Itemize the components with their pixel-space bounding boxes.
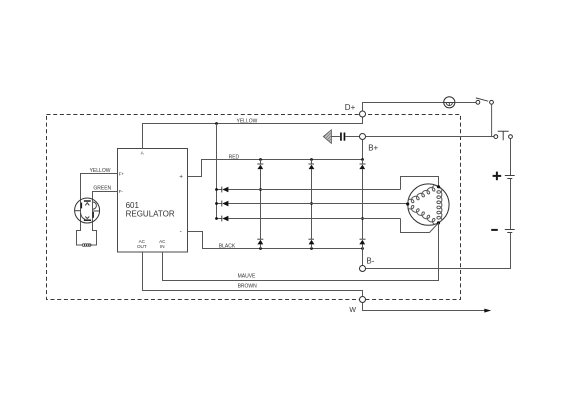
connector pin bar top xyxy=(84,200,91,202)
switch S1b contact right xyxy=(509,135,513,139)
node stator left xyxy=(406,202,409,205)
diode D3 (positive, arrow) xyxy=(359,165,365,170)
svg-text:BROWN: BROWN xyxy=(238,284,258,290)
switch S1b contact left xyxy=(494,135,498,139)
diode D7 (trio, arrow) xyxy=(222,187,228,193)
diode D8 (trio, cathode bar) xyxy=(221,201,223,207)
junction RED rail phase 1 xyxy=(259,158,262,161)
junction trio bus y=203.6 xyxy=(215,202,218,205)
wire phase row y=217.9 xyxy=(228,218,400,220)
regulator pin label AC OUT xyxy=(137,239,147,249)
wire B+ terminal down to positive rail xyxy=(362,140,364,160)
svg-text:RED: RED xyxy=(229,154,240,160)
wire trio diode cathode bus (vertical) xyxy=(216,124,218,219)
junction BLACK rail phase 3 xyxy=(361,247,364,250)
wire phase 3 staircase to stator bottom node xyxy=(401,219,439,233)
regulator U1 value label 601 REGULATOR xyxy=(126,201,175,219)
wire capacitor C1 to B+ terminal xyxy=(346,136,360,138)
wire trio bus stub to diode D9 xyxy=(217,218,222,220)
diode D1 (positive, cathode bar) xyxy=(257,163,263,165)
connector pin bar bottom xyxy=(84,219,91,221)
junction BLACK rail phase 2 xyxy=(310,247,313,250)
wire phase row y=188.8 xyxy=(228,189,400,191)
junction phase row on column x=362.2 xyxy=(361,217,364,220)
switch S1a contact right xyxy=(490,100,494,104)
diode D2 (positive, cathode bar) xyxy=(309,163,315,165)
svg-text:W: W xyxy=(349,307,356,314)
diode D3 (positive, cathode bar) xyxy=(360,163,366,165)
wire phase row y=203.6 xyxy=(228,203,407,205)
wire YELLOW from regulator A pin to D+ terminal xyxy=(143,117,363,149)
arrowhead on W output wire xyxy=(484,309,491,313)
connector tick right xyxy=(93,210,99,212)
svg-text:-: - xyxy=(180,228,182,235)
stator frame circle xyxy=(408,184,449,225)
junction phase row on column x=311 xyxy=(310,202,313,205)
junction trio bus y=188.8 xyxy=(215,188,218,191)
svg-text:GREEN: GREEN xyxy=(93,185,111,191)
wire BLACK rail to B- terminal xyxy=(362,249,364,266)
svg-text:601: 601 xyxy=(126,201,140,210)
brush connector plug circle xyxy=(75,198,100,223)
node stator top xyxy=(437,185,440,188)
wire B+ terminal to ignition switch S1b xyxy=(366,136,495,138)
wire BROWN AC OUT to W terminal xyxy=(143,252,363,297)
diode D1 (positive, arrow) xyxy=(257,165,263,170)
terminal D+ circle xyxy=(360,111,366,117)
wire regulator + pin to RED rail xyxy=(188,160,363,177)
connector jaw left lower xyxy=(81,213,86,219)
wire phase 1 staircase to stator top node xyxy=(401,177,439,190)
svg-text:F+: F+ xyxy=(119,172,125,177)
junction on yellow wire at trio diode feed xyxy=(215,122,218,125)
wire YELLOW regulator F+ to brush connector xyxy=(77,174,118,246)
connector socket bump right upper xyxy=(93,202,97,209)
wire switch S1b to battery positive xyxy=(510,139,512,176)
wire trio bus stub to diode D8 xyxy=(217,203,222,205)
junction RED rail phase 2 xyxy=(310,158,313,161)
battery BT1 + polarity mark xyxy=(493,172,502,181)
wire regulator - pin to BLACK rail xyxy=(188,232,363,249)
svg-text:D+: D+ xyxy=(345,103,356,112)
stator winding coil lower-left (phase 2-3) xyxy=(408,204,439,224)
junction RED rail phase 3 xyxy=(361,158,364,161)
battery BT1 cell 2 plates xyxy=(505,230,515,233)
capacitor C1 plates xyxy=(340,133,345,141)
svg-text:IN: IN xyxy=(160,244,165,249)
warning lamp L1 xyxy=(444,97,455,108)
wire battery inter-cell xyxy=(510,179,512,230)
diode D8 (trio, arrow) xyxy=(222,201,228,207)
svg-text:B-: B- xyxy=(366,256,374,265)
rectifier column phase wire at x=260.3 top xyxy=(260,160,262,249)
wire MAUVE stator bottom node to AC IN xyxy=(163,223,439,281)
diode D7 (trio, cathode bar) xyxy=(221,187,223,193)
connector socket bar left upper xyxy=(80,203,82,209)
regulator U1 body (601 REGULATOR) xyxy=(118,149,188,253)
svg-text:YELLOW: YELLOW xyxy=(90,168,111,174)
battery BT1 cell 1 plates xyxy=(505,176,515,179)
alternator case dashed boundary xyxy=(47,115,461,300)
switch S1a lever xyxy=(476,98,488,101)
svg-text:B+: B+ xyxy=(368,144,378,153)
wire switch S1a to B+ feed junction xyxy=(492,104,494,136)
wire trio bus stub to diode D7 xyxy=(217,189,222,191)
svg-text:OUT: OUT xyxy=(137,244,147,249)
rotor field coil winding xyxy=(82,244,91,247)
diode D4 (negative, arrow) xyxy=(257,240,263,245)
junction phase row on column x=260.3 xyxy=(259,188,262,191)
connector pin arrow down xyxy=(85,217,89,219)
diode D9 (trio, arrow) xyxy=(222,216,228,222)
diode D5 (negative, arrow) xyxy=(309,240,315,245)
wire ground to capacitor C1 xyxy=(331,136,340,138)
connector pin arrow up xyxy=(85,203,89,206)
wire lamp to ignition switch S1a xyxy=(455,102,476,104)
switch S1a contact left xyxy=(476,100,480,104)
wire battery negative to B- terminal xyxy=(366,233,511,269)
svg-text:+: + xyxy=(179,173,183,180)
terminal B- circle xyxy=(360,266,366,272)
connector tick left xyxy=(75,210,81,212)
wire GREEN regulator F- to brush connector xyxy=(90,192,118,246)
junction BLACK rail phase 1 xyxy=(259,247,262,250)
terminal B+ circle xyxy=(360,134,366,140)
battery BT1 - polarity mark xyxy=(491,229,498,231)
diode D5 (negative, cathode bar) xyxy=(309,238,315,240)
svg-text:YELLOW: YELLOW xyxy=(237,118,258,124)
connector socket bar right lower xyxy=(92,212,94,218)
svg-text:MAUVE: MAUVE xyxy=(238,273,256,279)
node stator bottom xyxy=(437,221,440,224)
diode D4 (negative, cathode bar) xyxy=(257,238,263,240)
diode D6 (negative, arrow) xyxy=(359,240,365,245)
switch S1 actuator bar xyxy=(498,131,509,140)
svg-text:REGULATOR: REGULATOR xyxy=(126,210,175,219)
wire D+ terminal to warning lamp xyxy=(363,103,444,112)
svg-text:F-: F- xyxy=(119,189,124,194)
rectifier column phase wire at x=311 top xyxy=(311,160,313,249)
terminal W circle xyxy=(360,297,366,303)
chassis ground symbol (suppressor capacitor) xyxy=(323,130,331,144)
diode D6 (negative, cathode bar) xyxy=(360,238,366,240)
junction trio bus y=217.9 xyxy=(215,217,218,220)
stator winding coil right (phase 1-3) xyxy=(437,187,442,223)
stator winding coil upper-left (phase 1-2) xyxy=(408,185,439,204)
regulator pin label AC IN xyxy=(159,239,166,249)
wire W terminal output with arrow xyxy=(363,303,485,311)
diode D9 (trio, cathode bar) xyxy=(221,216,223,222)
diode D2 (positive, arrow) xyxy=(309,165,315,170)
svg-text:BLACK: BLACK xyxy=(219,244,236,250)
rectifier column phase wire at x=362.2 top xyxy=(362,160,364,249)
